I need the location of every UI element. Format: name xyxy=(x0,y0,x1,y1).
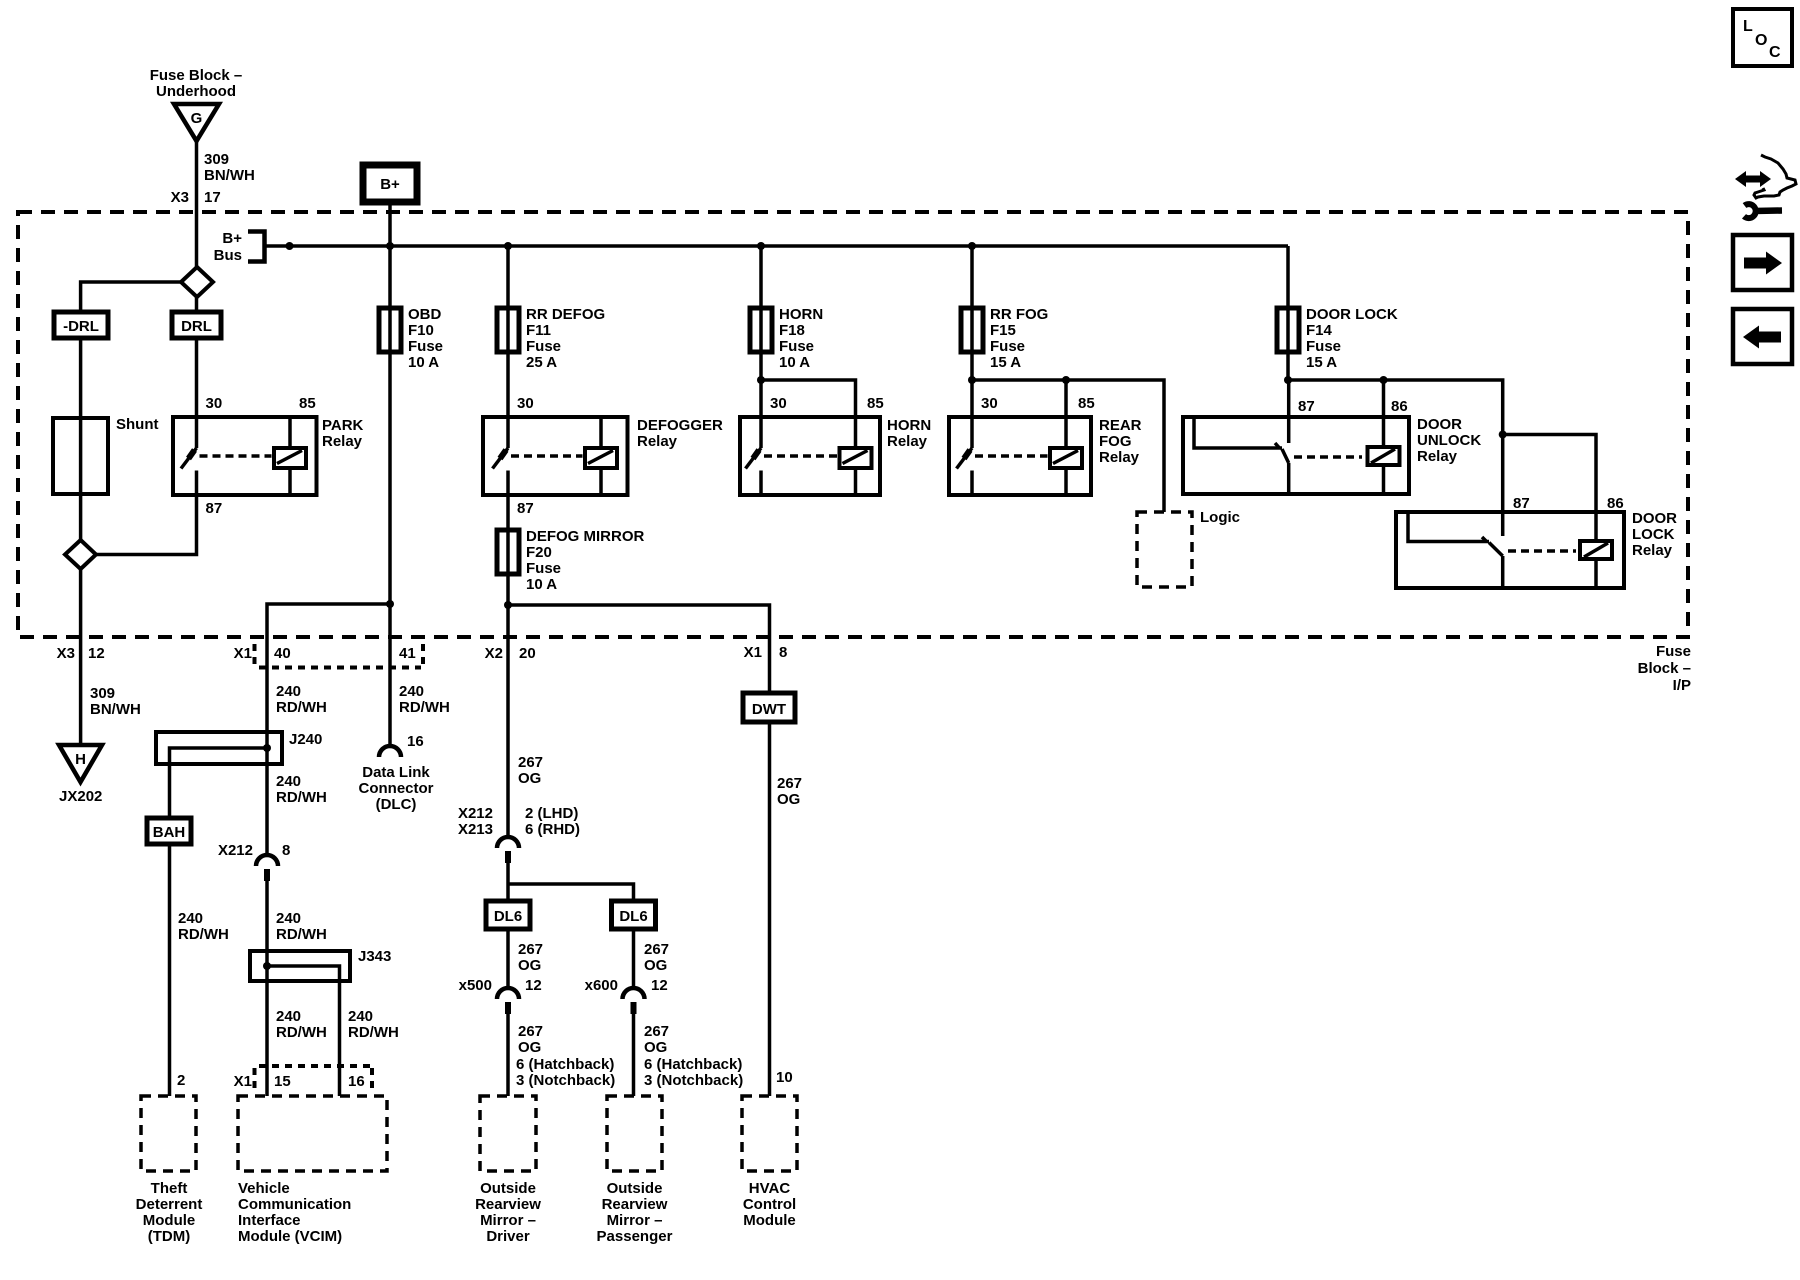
svg-text:F14: F14 xyxy=(1306,322,1333,339)
svg-text:C: C xyxy=(1769,44,1781,61)
svg-text:Communication: Communication xyxy=(238,1196,351,1213)
fuse F14 DOOR LOCK 15 A xyxy=(1277,306,1398,371)
svg-text:x600: x600 xyxy=(585,977,618,994)
svg-text:Module (VCIM): Module (VCIM) xyxy=(238,1228,342,1245)
connector X1 pins 15/16 (dotted) xyxy=(234,1066,372,1090)
svg-text:267: 267 xyxy=(777,775,802,792)
svg-text:3 (Notchback): 3 (Notchback) xyxy=(516,1072,615,1089)
module Theft Deterrent Module (TDM) xyxy=(136,1096,203,1245)
svg-text:267: 267 xyxy=(644,941,669,958)
svg-text:Fuse Block –: Fuse Block – xyxy=(150,67,243,84)
junction on bus at park coil xyxy=(286,242,294,250)
wire label 267 OG xyxy=(518,754,543,787)
ground H JX202 xyxy=(59,745,102,805)
svg-text:Relay: Relay xyxy=(637,433,678,450)
svg-text:RD/WH: RD/WH xyxy=(276,1024,327,1041)
wire bus to F18 xyxy=(759,246,763,308)
svg-text:30: 30 xyxy=(770,395,787,412)
svg-text:BAH: BAH xyxy=(153,824,186,841)
terminal DRL xyxy=(172,312,221,338)
svg-text:O: O xyxy=(1755,32,1767,49)
wire defogger 87 to F20 xyxy=(506,495,510,530)
svg-text:HVAC: HVAC xyxy=(749,1180,791,1197)
svg-text:6 (Hatchback): 6 (Hatchback) xyxy=(516,1056,614,1073)
svg-text:86: 86 xyxy=(1607,495,1624,512)
pin X2 20 xyxy=(485,645,536,662)
svg-text:(DLC): (DLC) xyxy=(376,796,417,813)
wire 309 BN/WH from G to splice diamond xyxy=(195,141,199,268)
svg-text:DRL: DRL xyxy=(181,318,212,335)
wire label 240 RD/WH below J240 xyxy=(276,773,327,806)
svg-text:Relay: Relay xyxy=(1632,542,1673,559)
terminal -DRL xyxy=(54,312,108,338)
svg-text:15 A: 15 A xyxy=(1306,354,1337,371)
svg-text:309: 309 xyxy=(90,685,115,702)
svg-text:Driver: Driver xyxy=(486,1228,530,1245)
svg-text:RD/WH: RD/WH xyxy=(348,1024,399,1041)
connector X212/X213 xyxy=(458,805,580,863)
B+ terminal xyxy=(363,165,417,202)
svg-text:10 A: 10 A xyxy=(779,354,810,371)
svg-text:10: 10 xyxy=(776,1069,793,1086)
terminal DL6 (passenger) xyxy=(612,901,656,929)
relay DOOR LOCK xyxy=(1396,495,1677,588)
wire F20 to junction xyxy=(506,574,510,605)
wire F14 branch right to door lock relay feed xyxy=(1288,380,1503,435)
label: Fuse Block - I/P xyxy=(1638,643,1691,694)
svg-text:UNLOCK: UNLOCK xyxy=(1417,432,1481,449)
svg-text:RD/WH: RD/WH xyxy=(276,699,327,716)
splice J343 xyxy=(250,948,391,981)
svg-text:Underhood: Underhood xyxy=(156,83,236,100)
svg-text:Data Link: Data Link xyxy=(362,764,430,781)
wire F18 to horn relay pin 30 xyxy=(759,352,763,417)
junction on bus at F18 xyxy=(757,242,765,250)
svg-text:DEFOGGER: DEFOGGER xyxy=(637,417,723,434)
wire diamond to DRL xyxy=(195,297,199,312)
svg-text:Fuse: Fuse xyxy=(1306,338,1341,355)
svg-text:Relay: Relay xyxy=(887,433,928,450)
svg-text:Fuse: Fuse xyxy=(990,338,1025,355)
svg-text:87: 87 xyxy=(517,500,534,517)
splice diamond node xyxy=(181,267,213,297)
svg-text:240: 240 xyxy=(276,773,301,790)
svg-text:DL6: DL6 xyxy=(619,908,647,925)
svg-text:Bus: Bus xyxy=(214,247,242,264)
svg-text:RR DEFOG: RR DEFOG xyxy=(526,306,605,323)
icon: forward arrow box xyxy=(1733,235,1792,290)
svg-text:Module: Module xyxy=(143,1212,196,1229)
wire to HVAC column xyxy=(508,605,770,693)
wire split to DL6 pair xyxy=(506,863,510,901)
svg-text:309: 309 xyxy=(204,151,229,168)
svg-text:H: H xyxy=(75,751,86,768)
module HVAC Control Module xyxy=(742,1096,797,1229)
svg-text:J240: J240 xyxy=(289,731,322,748)
svg-text:Vehicle: Vehicle xyxy=(238,1180,290,1197)
module Outside Rearview Mirror - Passenger xyxy=(597,1096,673,1245)
svg-text:267: 267 xyxy=(518,1023,543,1040)
svg-text:G: G xyxy=(191,110,203,127)
svg-text:OG: OG xyxy=(518,957,541,974)
junction F14 output xyxy=(1284,376,1292,384)
svg-text:267: 267 xyxy=(644,1023,669,1040)
svg-text:30: 30 xyxy=(981,395,998,412)
wire label 240 RD/WH (pin41) xyxy=(399,683,450,716)
fuse F15 RR FOG 15 A xyxy=(961,306,1048,371)
wire -DRL to shunt xyxy=(79,338,83,418)
svg-text:FOG: FOG xyxy=(1099,433,1132,450)
svg-text:X2: X2 xyxy=(485,645,503,662)
svg-text:10 A: 10 A xyxy=(526,576,557,593)
svg-text:X212: X212 xyxy=(218,842,253,859)
icon: vehicle outline scribble xyxy=(1754,155,1796,198)
svg-text:RD/WH: RD/WH xyxy=(276,789,327,806)
svg-text:240: 240 xyxy=(276,683,301,700)
icon: double arrow xyxy=(1735,171,1771,187)
svg-text:OG: OG xyxy=(777,791,800,808)
wire to driver mirror xyxy=(506,1014,510,1096)
svg-text:X1: X1 xyxy=(234,645,252,662)
B+ bus wire xyxy=(265,244,1289,248)
svg-text:BN/WH: BN/WH xyxy=(204,167,255,184)
wire to door lock relay pin 86 xyxy=(1503,435,1596,513)
svg-text:25 A: 25 A xyxy=(526,354,557,371)
svg-text:Relay: Relay xyxy=(1099,449,1140,466)
wire DWT to HVAC xyxy=(768,722,772,1096)
svg-text:DOOR: DOOR xyxy=(1417,416,1462,433)
fuse F11 RR DEFOG 25 A xyxy=(497,306,605,371)
wire PARK relay 87 to diamond2 xyxy=(96,495,197,555)
svg-text:3 (Notchback): 3 (Notchback) xyxy=(644,1072,743,1089)
junction horn coil branch xyxy=(757,376,765,384)
svg-text:Module: Module xyxy=(743,1212,796,1229)
relay REAR FOG xyxy=(949,395,1142,495)
svg-text:Fuse: Fuse xyxy=(779,338,814,355)
svg-text:87: 87 xyxy=(206,500,223,517)
svg-text:OG: OG xyxy=(518,770,541,787)
wire bus to OBD fuse xyxy=(388,246,392,308)
connector x500 pin 12 xyxy=(459,977,542,1014)
svg-text:20: 20 xyxy=(519,645,536,662)
shunt resistor xyxy=(53,416,159,494)
wire DL6 to x600 xyxy=(632,929,636,989)
svg-text:X212: X212 xyxy=(458,805,493,822)
wire DL6 to x500 xyxy=(506,929,510,989)
svg-text:Passenger: Passenger xyxy=(597,1228,673,1245)
splice diamond node 2 xyxy=(65,540,96,569)
svg-text:12: 12 xyxy=(651,977,668,994)
svg-text:LOCK: LOCK xyxy=(1632,526,1675,543)
svg-text:Interface: Interface xyxy=(238,1212,301,1229)
relay DOOR UNLOCK xyxy=(1183,398,1481,494)
svg-text:Fuse: Fuse xyxy=(1656,643,1691,660)
svg-text:HORN: HORN xyxy=(779,306,823,323)
svg-text:Mirror –: Mirror – xyxy=(607,1212,663,1229)
svg-text:Block –: Block – xyxy=(1638,660,1691,677)
connector X1 pins 40/41 (dotted) xyxy=(234,644,423,668)
junction on bus at F15 xyxy=(968,242,976,250)
svg-text:F20: F20 xyxy=(526,544,552,561)
wire J343 internal branch to pin 16 xyxy=(267,966,340,1096)
wire DRL to PARK relay pin 30 xyxy=(195,338,199,418)
wire BAH to TDM xyxy=(168,844,172,1096)
svg-text:X1: X1 xyxy=(234,1073,252,1090)
wire B+ to bus xyxy=(388,202,392,246)
junction OBD wire / DLC branch xyxy=(386,600,394,608)
junction rear fog coil branch xyxy=(968,376,976,384)
terminal BAH xyxy=(147,818,191,844)
wire J240 internal branch xyxy=(170,748,268,818)
pin X3 12 xyxy=(57,645,105,662)
wire to rear fog relay pin 85 xyxy=(1064,380,1068,417)
svg-text:DEFOG MIRROR: DEFOG MIRROR xyxy=(526,528,644,545)
svg-text:OBD: OBD xyxy=(408,306,442,323)
fuse F18 HORN 10 A xyxy=(750,306,823,371)
svg-text:PARK: PARK xyxy=(322,417,364,434)
svg-text:Mirror –: Mirror – xyxy=(480,1212,536,1229)
svg-text:17: 17 xyxy=(204,189,221,206)
svg-text:JX202: JX202 xyxy=(59,788,102,805)
wire F14 down xyxy=(1286,352,1290,380)
junction in J240 xyxy=(263,744,271,752)
wire OBD fuse down to junction xyxy=(388,352,392,604)
junction at rear fog 85 xyxy=(1062,376,1070,384)
svg-text:86: 86 xyxy=(1391,398,1408,415)
wire to door unlock relay pin 87 xyxy=(1287,380,1291,443)
svg-text:X213: X213 xyxy=(458,821,493,838)
connector x600 pin 12 xyxy=(585,977,668,1014)
connector DLC pin 16 arc xyxy=(359,733,434,813)
svg-text:HORN: HORN xyxy=(887,417,931,434)
wire to horn relay pin 85 xyxy=(761,380,856,417)
wire to J343 xyxy=(265,881,269,1096)
relay HORN xyxy=(740,395,931,495)
svg-text:87: 87 xyxy=(1513,495,1530,512)
pin X1 8 xyxy=(744,644,788,661)
svg-text:REAR: REAR xyxy=(1099,417,1142,434)
wire branch to rear fog 85 and logic xyxy=(972,380,1164,512)
junction in J343 xyxy=(263,962,271,970)
svg-text:Shunt: Shunt xyxy=(116,416,159,433)
svg-text:8: 8 xyxy=(282,842,290,859)
svg-text:16: 16 xyxy=(407,733,424,750)
svg-text:240: 240 xyxy=(178,910,203,927)
svg-text:L: L xyxy=(1743,18,1753,35)
svg-text:RD/WH: RD/WH xyxy=(399,699,450,716)
wire OBD to DLC xyxy=(388,604,392,746)
svg-text:OG: OG xyxy=(644,1039,667,1056)
LOC legend box xyxy=(1733,9,1792,66)
svg-text:30: 30 xyxy=(517,395,534,412)
wire bus corner down to F14 xyxy=(1286,246,1290,308)
svg-text:J343: J343 xyxy=(358,948,391,965)
svg-text:DWT: DWT xyxy=(752,701,786,718)
svg-text:X3: X3 xyxy=(171,189,189,206)
svg-text:DOOR: DOOR xyxy=(1632,510,1677,527)
svg-text:240: 240 xyxy=(276,910,301,927)
terminal DWT xyxy=(743,693,795,722)
wire branch to pin 40 column xyxy=(267,604,390,856)
wire label 240 RD/WH (pin40) xyxy=(276,683,327,716)
module Outside Rearview Mirror - Driver xyxy=(475,1096,541,1245)
terminal DL6 (driver) xyxy=(486,901,530,929)
wire to door lock relay pin 87 xyxy=(1501,435,1505,537)
wire F15 to rear fog relay pin 30 xyxy=(970,352,974,417)
wire to mirror column xyxy=(506,605,510,838)
svg-text:240: 240 xyxy=(276,1008,301,1025)
wire shunt to diamond2 xyxy=(79,494,83,540)
svg-text:Outside: Outside xyxy=(607,1180,663,1197)
svg-text:DOOR LOCK: DOOR LOCK xyxy=(1306,306,1398,323)
svg-text:Fuse: Fuse xyxy=(526,560,561,577)
svg-text:240: 240 xyxy=(399,683,424,700)
svg-text:BN/WH: BN/WH xyxy=(90,701,141,718)
svg-text:(TDM): (TDM) xyxy=(148,1228,190,1245)
wire to passenger mirror xyxy=(632,1014,636,1096)
svg-text:F11: F11 xyxy=(526,322,551,339)
wire F11 to defogger relay pin 30 xyxy=(506,352,510,417)
svg-text:15 A: 15 A xyxy=(990,354,1021,371)
svg-text:RD/WH: RD/WH xyxy=(276,926,327,943)
svg-text:87: 87 xyxy=(1298,398,1315,415)
svg-text:41: 41 xyxy=(399,645,416,662)
svg-text:Outside: Outside xyxy=(480,1180,536,1197)
svg-text:-DRL: -DRL xyxy=(63,318,99,335)
svg-text:RR FOG: RR FOG xyxy=(990,306,1048,323)
svg-text:10 A: 10 A xyxy=(408,354,439,371)
svg-text:15: 15 xyxy=(274,1073,291,1090)
wire bus to F11 xyxy=(506,246,510,308)
svg-text:DL6: DL6 xyxy=(494,908,522,925)
svg-text:Rearview: Rearview xyxy=(475,1196,541,1213)
svg-text:Theft: Theft xyxy=(151,1180,188,1197)
svg-text:B+: B+ xyxy=(380,176,400,193)
junction on bus at B+/OBD xyxy=(386,242,394,250)
svg-text:Relay: Relay xyxy=(1417,448,1458,465)
power feed G (Fuse Block - Underhood) xyxy=(150,67,243,141)
svg-text:Connector: Connector xyxy=(359,780,434,797)
svg-text:12: 12 xyxy=(88,645,105,662)
svg-text:RD/WH: RD/WH xyxy=(178,926,229,943)
svg-text:X1: X1 xyxy=(744,644,762,661)
fuse F20 DEFOG MIRROR 10 A xyxy=(497,528,644,593)
svg-text:85: 85 xyxy=(1078,395,1095,412)
svg-text:267: 267 xyxy=(518,754,543,771)
pin X3 17 xyxy=(171,189,221,206)
svg-text:8: 8 xyxy=(779,644,787,661)
wire bus to F15 xyxy=(970,246,974,308)
svg-text:F15: F15 xyxy=(990,322,1016,339)
svg-text:B+: B+ xyxy=(222,230,242,247)
svg-text:Control: Control xyxy=(743,1196,796,1213)
junction defog mirror / HVAC branch xyxy=(504,601,512,609)
svg-text:OG: OG xyxy=(518,1039,541,1056)
svg-text:F18: F18 xyxy=(779,322,805,339)
svg-text:I/P: I/P xyxy=(1673,677,1691,694)
logic module dashed box xyxy=(1137,509,1240,587)
relay DEFOGGER xyxy=(483,395,723,517)
junction on bus at F11 xyxy=(504,242,512,250)
fuse block underhood/IP dashed boundary xyxy=(18,212,1688,637)
svg-text:Fuse: Fuse xyxy=(526,338,561,355)
svg-text:2: 2 xyxy=(177,1072,185,1089)
relay PARK (K relay) xyxy=(173,395,364,517)
svg-text:Logic: Logic xyxy=(1200,509,1240,526)
svg-text:6 (Hatchback): 6 (Hatchback) xyxy=(644,1056,742,1073)
svg-text:16: 16 xyxy=(348,1073,365,1090)
junction unlock coil branch xyxy=(1380,376,1388,384)
svg-text:OG: OG xyxy=(644,957,667,974)
svg-text:2 (LHD): 2 (LHD) xyxy=(525,805,578,822)
splice J240 xyxy=(156,731,322,764)
connector X212 pin 8 xyxy=(218,842,290,881)
svg-text:Relay: Relay xyxy=(322,433,363,450)
svg-text:Fuse: Fuse xyxy=(408,338,443,355)
svg-text:30: 30 xyxy=(206,395,223,412)
junction door lock relay feed xyxy=(1499,431,1507,439)
B+ Bus bracket xyxy=(214,230,265,264)
icon: back arrow box xyxy=(1733,309,1792,364)
svg-text:6 (RHD): 6 (RHD) xyxy=(525,821,580,838)
svg-text:X3: X3 xyxy=(57,645,75,662)
wire 309 BN/WH diamond2 to H xyxy=(79,569,83,745)
svg-text:267: 267 xyxy=(518,941,543,958)
wire from diamond to -DRL xyxy=(81,282,181,312)
svg-text:Deterrent: Deterrent xyxy=(136,1196,203,1213)
svg-text:85: 85 xyxy=(299,395,316,412)
svg-text:40: 40 xyxy=(274,645,291,662)
wire to door unlock relay pin 86 xyxy=(1382,380,1386,417)
svg-text:x500: x500 xyxy=(459,977,492,994)
svg-text:Rearview: Rearview xyxy=(602,1196,668,1213)
module Vehicle Communication Interface Module (VCIM) xyxy=(238,1096,387,1245)
svg-text:12: 12 xyxy=(525,977,542,994)
fuse F10 OBD 10 A xyxy=(379,306,443,371)
svg-text:240: 240 xyxy=(348,1008,373,1025)
svg-text:85: 85 xyxy=(867,395,884,412)
icon: wrench xyxy=(1744,204,1756,218)
svg-text:F10: F10 xyxy=(408,322,434,339)
